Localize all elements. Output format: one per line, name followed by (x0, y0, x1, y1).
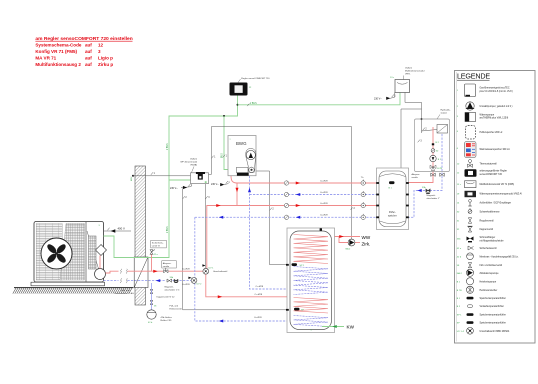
station dirt separator (426, 189, 430, 192)
svg-text:Regler sensoCOMFORT 720: Regler sensoCOMFORT 720 (241, 77, 270, 80)
cable HP 400V through wall to module (132, 175, 134, 177)
cable VR71 to hydraulic station (405, 93, 422, 134)
pipe blue return riser UV2 (194, 217, 196, 277)
svg-text:Füll- und: Füll- und (121, 290, 130, 292)
arrow blue station return (417, 189, 422, 192)
svg-text:Membran - Ausdehnungsgefäß 35: Membran - Ausdehnungsgefäß 35 Ltr. (480, 255, 519, 258)
expansion vessel 42b (147, 310, 156, 319)
heat pump pump circle (95, 269, 106, 280)
svg-text:Cu Ø28: Cu Ø28 (320, 203, 328, 205)
svg-text:UV 2: UV 2 (197, 284, 203, 286)
svg-text:NA 2: NA 2 (346, 247, 352, 250)
svg-text:12: 12 (98, 43, 104, 48)
pipe red UV1 down to cylinder (206, 274, 287, 297)
buffer port right (406, 182, 409, 184)
cable multifunction output to circulation pump (212, 127, 352, 240)
arrow red WW (339, 235, 344, 238)
wire eBUS from heat pump through wall (104, 96, 238, 258)
svg-text:NA-2: NA-2 (457, 272, 463, 275)
svg-text:Regulierventil: Regulierventil (480, 219, 495, 222)
cylinder sensor SP (294, 308, 300, 311)
svg-text:Heizkreispumpe: Heizkreispumpe (480, 280, 497, 283)
svg-text:Absperr-: Absperr- (412, 173, 421, 176)
ground line (14, 287, 134, 289)
svg-text:Cu Ø28: Cu Ø28 (182, 284, 190, 286)
svg-text:UV 1: UV 1 (209, 267, 215, 269)
wall (135, 166, 146, 305)
buffer port right (406, 205, 409, 207)
svg-text:Kappenventil 'G' 42: Kappenventil 'G' 42 (157, 296, 176, 299)
cylinder coil red lower (294, 298, 329, 314)
controller sensoCOMFORT 720 (230, 83, 248, 96)
wire eBUS to VWZ AI module (169, 179, 191, 181)
pipe blue stub to vessel (151, 283, 153, 310)
buffer port right (406, 216, 409, 218)
wire eBUS to VR71 (238, 93, 401, 105)
svg-text:KW: KW (347, 325, 355, 330)
svg-text:2 BUS: 2 BUS (167, 226, 169, 233)
svg-text:Vaillant: Vaillant (405, 67, 412, 70)
pipe blue heating return (195, 216, 377, 218)
arrow red heating flow left (216, 204, 221, 207)
gravity brake 30 (431, 149, 435, 153)
boiler bottom black bar (237, 173, 249, 176)
pipe blue buffer to BWG (250, 194, 377, 196)
heat pump fan (41, 238, 72, 269)
svg-text:Speichertemperaturfühler: Speichertemperaturfühler (480, 313, 506, 316)
svg-text:Cu Ø28: Cu Ø28 (254, 317, 262, 319)
pipe red BWG flow to buffer (231, 176, 377, 183)
pipe blue BWG return riser (250, 176, 288, 289)
svg-text:Entleerventil: Entleerventil (170, 307, 183, 310)
svg-text:230 V~: 230 V~ (170, 187, 178, 190)
svg-text:Absperr-: Absperr- (163, 262, 172, 265)
fill drain valve (150, 301, 153, 305)
cylinder coil blue mid (294, 267, 329, 295)
svg-text:ventile: ventile (163, 265, 170, 268)
pipe red safety valve riser (151, 255, 153, 272)
svg-text:Vorlauftemperaturfühler: Vorlauftemperaturfühler (480, 305, 505, 308)
heat pump grille right (60, 224, 85, 281)
svg-text:Cu Ø28: Cu Ø28 (320, 180, 328, 182)
dirt separator blue line (174, 279, 178, 282)
svg-text:Thermostatventil: Thermostatventil (480, 162, 498, 165)
svg-text:Kappenventil: Kappenventil (480, 228, 494, 231)
heat pump aroTHERM body (34, 222, 104, 283)
svg-text:auf: auf (85, 62, 92, 67)
svg-text:MA VR 71: MA VR 71 (35, 55, 56, 60)
red settings note (35, 36, 132, 42)
cylinder coil red top (294, 235, 329, 264)
pipe red HP flow to wall (106, 271, 119, 273)
svg-text:400 V: 400 V (118, 227, 125, 231)
svg-text:SP 1: SP 1 (300, 265, 305, 267)
svg-text:Wärmepumpensteuerungsmodul VWZ: Wärmepumpensteuerungsmodul VWZ AI (480, 193, 523, 196)
svg-text:Puffer-: Puffer- (389, 211, 396, 214)
svg-text:230 V~: 230 V~ (374, 97, 382, 100)
svg-text:Entleerhähne 2" AG: Entleerhähne 2" AG (115, 292, 135, 295)
svg-text:Umwälzpumpe ( geliefert mit 3: Umwälzpumpe ( geliefert mit 3 ) (480, 105, 513, 108)
label shutoff valves left (162, 261, 177, 268)
diverter valve UV 2 (191, 278, 197, 284)
cylinder port marks (286, 264, 289, 266)
svg-text:Ligio p: Ligio p (98, 55, 113, 60)
cylinder outer (287, 228, 335, 333)
cylinder sensor SP1 (292, 263, 298, 266)
svg-text:a: a (230, 139, 231, 141)
arrow blue buffer return (296, 193, 301, 196)
buffer port right (406, 194, 409, 196)
svg-text:WP-Steuermodul: WP-Steuermodul (180, 160, 197, 163)
svg-text:Füll- und Entleerventil: Füll- und Entleerventil (480, 264, 503, 267)
svg-text:Gas-Brennwertgerät ecoTEC: Gas-Brennwertgerät ecoTEC (480, 87, 510, 90)
heat pump inner radiator (89, 236, 97, 269)
boiler internal pump bulb (246, 149, 256, 173)
safety valve 42a (150, 250, 153, 254)
svg-text:Magnetit-: Magnetit- (165, 286, 174, 289)
pipe red after shutoff to UV1 (169, 270, 204, 272)
svg-text:Speichertemperaturfühler: Speichertemperaturfühler (480, 297, 506, 300)
arrow blue cylinder return (219, 320, 224, 323)
node eBUS junction BWG branch (223, 115, 225, 117)
svg-text:mit Magnetitabscheider: mit Magnetitabscheider (480, 239, 504, 242)
svg-text:ventile: ventile (412, 176, 419, 179)
svg-text:2 BUS: 2 BUS (250, 103, 257, 105)
station control box (437, 125, 448, 134)
pipe blue HP return from wall (104, 280, 119, 282)
svg-text:LEGENDE: LEGENDE (457, 72, 490, 81)
cap valve on line (284, 203, 288, 207)
svg-text:plus VC 20CS/1-5 (mit int. VUV: plus VC 20CS/1-5 (mit int. VUV) (480, 90, 513, 93)
pipe KW cold water (322, 326, 344, 328)
svg-text:WW: WW (362, 235, 371, 240)
module VR71 box (395, 80, 410, 93)
arrow red BWG flow (296, 182, 301, 185)
diverter valve UV 1 (203, 268, 209, 274)
svg-text:Cu Ø28: Cu Ø28 (320, 215, 328, 217)
svg-text:400V: 400V (131, 176, 133, 181)
station shutoff valves (431, 173, 435, 176)
shutoff valve blue line (167, 279, 172, 282)
cable module riser to multifunction line (208, 127, 212, 175)
svg-text:abscheider 1": abscheider 1" (427, 197, 441, 200)
label safety valve (151, 240, 167, 248)
module VWZ AI box (191, 173, 209, 184)
svg-text:VWZAI: VWZAI (190, 163, 197, 166)
cable 230V to module (181, 187, 192, 188)
cap valve on line (284, 192, 288, 196)
pipe red circulation (339, 237, 348, 243)
label 2 BUS horizontal (247, 104, 249, 107)
svg-text:Sicherheitsventil: Sicherheitsventil (480, 247, 497, 250)
heat pump base (31, 282, 105, 286)
svg-text:auf: auf (85, 43, 92, 48)
cap valve on line (284, 181, 288, 185)
heat pump side panel (85, 222, 87, 282)
svg-text:Magnetit-: Magnetit- (427, 194, 436, 197)
svg-text:Heizkreismischer: Heizkreismischer (480, 289, 498, 292)
wall sleeve opening (134, 257, 148, 288)
svg-text:VR71: VR71 (405, 74, 411, 76)
cable module to SP sensor (183, 189, 292, 310)
cylinder coil blue bottom (294, 316, 329, 327)
heat pump diamond (valve) (96, 245, 107, 256)
svg-text:Cu Ø28: Cu Ø28 (256, 286, 264, 288)
pump B1 (heating circuit) (430, 155, 436, 161)
mixer B7B (430, 165, 436, 170)
svg-text:Speichertemperaturfühler: Speichertemperaturfühler (480, 321, 506, 324)
svg-text:B 7B: B 7B (437, 168, 442, 170)
svg-text:SP 1: SP 1 (457, 314, 462, 316)
heat pump internal red pipe (99, 256, 101, 269)
flex hose break (120, 278, 121, 283)
svg-text:230 V~: 230 V~ (211, 183, 219, 186)
svg-text:Füll- und: Füll- und (170, 305, 179, 307)
svg-text:Multifunktionsausg 2: Multifunktionsausg 2 (35, 62, 81, 67)
svg-text:abscheider 1 G: abscheider 1 G (165, 289, 180, 292)
svg-text:2 BUS: 2 BUS (167, 143, 169, 150)
buffer tank outer (377, 168, 409, 230)
buffer tank vessel (379, 171, 406, 227)
svg-text:Cu Ø28: Cu Ø28 (182, 269, 190, 271)
svg-text:Multifunktionsmodul VR 71 (FM5: Multifunktionsmodul VR 71 (FM5) (480, 183, 515, 186)
legend box (455, 71, 536, 344)
pipe blue station return via filter (409, 127, 443, 217)
svg-text:Vaillant: Vaillant (190, 157, 197, 160)
svg-text:Schwerkraftbremse: Schwerkraftbremse (480, 210, 501, 213)
svg-text:Warmwasserspeicher 300 Ltr.: Warmwasserspeicher 300 Ltr. (480, 148, 511, 151)
svg-text:B 7B: B 7B (457, 290, 462, 292)
hydraulic station box (415, 119, 450, 172)
svg-text:Schmutzfänger: Schmutzfänger (480, 236, 496, 239)
cylinder vessel (290, 231, 332, 330)
svg-text:Außenfühler / DCF-Empfänger: Außenfühler / DCF-Empfänger (480, 202, 512, 205)
svg-text:BWG: BWG (236, 141, 247, 146)
svg-text:Pufferspeicher 200 Ltr.: Pufferspeicher 200 Ltr. (480, 131, 504, 134)
boiler bottom box (237, 167, 249, 172)
circulation pump NA2 (348, 239, 355, 246)
svg-text:am Regler sensoCOMFORT 720 ein: am Regler sensoCOMFORT 720 einstellen (35, 36, 132, 42)
arrow blue heating return left (219, 216, 224, 219)
svg-text:Hydraulik-: Hydraulik- (441, 109, 451, 112)
thermometer on line (361, 181, 365, 185)
pipe red BWG branch down (236, 183, 238, 206)
cable buffer sensor to station node (401, 109, 422, 181)
arrow blue HP return (156, 279, 161, 282)
shutoff valve red line (164, 270, 168, 273)
svg-text:Zirk.: Zirk. (362, 241, 371, 246)
wire eBUS to BWG (224, 116, 229, 170)
buffer port left (376, 182, 379, 184)
svg-text:auf: auf (85, 55, 92, 60)
thermometer on line (361, 203, 365, 207)
pipe red UV1 riser to heating flow (207, 206, 377, 269)
cable 400V supply stub (104, 230, 132, 232)
thermometer on line (361, 215, 365, 219)
cap valve under wall (150, 290, 153, 294)
pipe red WW from cylinder (322, 231, 360, 237)
arrow red heating flow right (296, 204, 301, 207)
svg-text:42b-Gefäss: 42b-Gefäss (161, 317, 173, 319)
flex hose break (120, 269, 121, 274)
arrow blue BWG return up (248, 188, 251, 193)
buffer port left (376, 216, 379, 218)
svg-text:Umschaltventil: Umschaltventil (213, 270, 228, 273)
svg-text:Sicherheits-: Sicherheits- (152, 242, 164, 245)
cap valve on line (284, 215, 288, 219)
svg-text:Umschaltventil 3SBC ZRS04: Umschaltventil 3SBC ZRS04 (480, 330, 510, 333)
arrow red to cylinder (218, 295, 223, 298)
boiler BWG box (228, 136, 256, 176)
svg-text:witterungsgeführter Regler: witterungsgeführter Regler (480, 170, 508, 173)
cable module to UV valves (204, 184, 206, 268)
buffer sensor (389, 181, 395, 184)
svg-text:Wärmepumpe: Wärmepumpe (480, 113, 495, 116)
svg-text:Cu Ø28: Cu Ø28 (320, 192, 328, 194)
pipe red station to buffer (409, 127, 434, 183)
buffer port left (376, 194, 379, 196)
svg-text:auf: auf (85, 49, 92, 54)
cable BWG to SP1 sensor (256, 171, 292, 265)
svg-text:speicher: speicher (388, 214, 397, 217)
svg-text:station: station (441, 112, 448, 115)
svg-text:sensoCOMFORT 720: sensoCOMFORT 720 (480, 174, 503, 176)
svg-text:Zirkulationspumpe: Zirkulationspumpe (480, 272, 500, 275)
svg-text:Reflex C35: Reflex C35 (161, 320, 173, 322)
node eBUS junction at controller riser (237, 104, 239, 106)
svg-text:Zirku p: Zirku p (98, 62, 113, 67)
thermometer on line (361, 192, 365, 196)
arrow red BWG branch down (236, 188, 239, 193)
svg-text:Konfig VR 71 (FM5): Konfig VR 71 (FM5) (35, 49, 77, 54)
arrow blue heating return right (296, 216, 301, 219)
buffer port left (376, 205, 379, 207)
svg-text:Systemschema-Code: Systemschema-Code (35, 43, 81, 48)
arrow red flow at wall (153, 270, 158, 273)
svg-text:UV 1+2: UV 1+2 (457, 331, 465, 333)
svg-text:aroTHERM plus VWL 125/6: aroTHERM plus VWL 125/6 (480, 117, 509, 120)
svg-text:ventil 'G': ventil 'G' (152, 245, 161, 248)
svg-text:Multifunktionsmodul: Multifunktionsmodul (405, 70, 425, 73)
sensor B2 (432, 143, 434, 145)
heat pump grille left (36, 224, 62, 281)
svg-text:Cu Ø28: Cu Ø28 (255, 294, 263, 296)
